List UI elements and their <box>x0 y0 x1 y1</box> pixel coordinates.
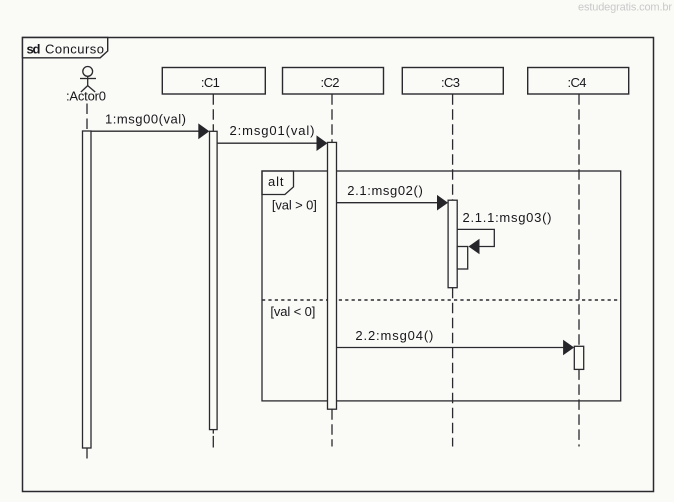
message 2.1:msg02() <box>337 183 449 211</box>
message 2.2:msg04() <box>337 328 575 356</box>
svg-text:2:msg01(val): 2:msg01(val) <box>230 123 315 138</box>
guard [val > 0] <box>272 197 317 212</box>
activation bar :C4 <box>574 346 583 369</box>
message 1:msg00(val) <box>91 111 209 139</box>
watermark estudegratis.com.br <box>578 2 672 14</box>
actor Actor0 <box>66 67 106 104</box>
svg-text:2.1.1:msg03(): 2.1.1:msg03() <box>463 210 552 225</box>
alt fragment frame <box>262 171 621 401</box>
activation bar :C2 <box>328 142 337 409</box>
svg-text::Actor0: :Actor0 <box>66 89 106 104</box>
message 2:msg01(val) <box>217 123 327 151</box>
frame label tab sd Concurso <box>23 38 108 58</box>
object head :C4 <box>528 68 629 95</box>
message 2.1.1:msg03() self call <box>457 210 551 254</box>
object head :C2 <box>283 68 384 95</box>
object head :C1 <box>162 68 265 95</box>
svg-text:1:msg00(val): 1:msg00(val) <box>105 111 186 126</box>
svg-text:2.1:msg02(): 2.1:msg02() <box>347 183 423 198</box>
lifeline :C2 <box>331 94 333 446</box>
svg-text:sd: sd <box>27 41 41 56</box>
svg-text:[val > 0]: [val > 0] <box>272 197 317 212</box>
svg-text:estudegratis.com.br: estudegratis.com.br <box>578 2 672 14</box>
lifeline :C1 <box>212 94 214 448</box>
svg-text:alt: alt <box>268 174 284 189</box>
svg-text::C4: :C4 <box>568 75 587 90</box>
lifeline :C4 <box>578 94 580 446</box>
svg-text:Concurso: Concurso <box>45 41 104 56</box>
svg-text:2.2:msg04(): 2.2:msg04() <box>355 328 433 343</box>
object head :C3 <box>402 68 503 95</box>
lifeline Actor0 <box>86 104 88 460</box>
activation bar :C3 nested <box>457 247 468 270</box>
guard [val < 0] <box>270 304 315 319</box>
activation bar :C1 <box>210 131 218 429</box>
svg-text:[val < 0]: [val < 0] <box>270 304 315 319</box>
alt divider dashed <box>262 299 621 301</box>
activation bar Actor0 <box>83 131 92 448</box>
svg-text::C1: :C1 <box>201 75 220 90</box>
svg-text::C3: :C3 <box>441 75 460 90</box>
svg-text::C2: :C2 <box>321 75 340 90</box>
activation bar :C3 <box>448 200 457 288</box>
lifeline :C3 <box>452 94 454 446</box>
